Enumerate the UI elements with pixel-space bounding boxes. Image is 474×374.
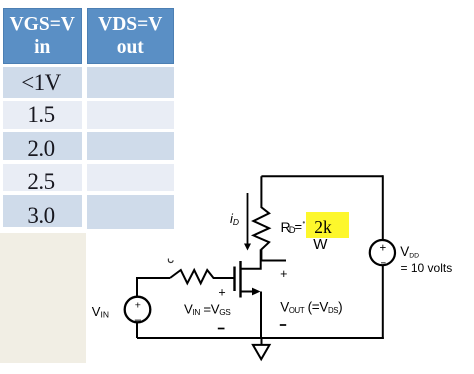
wire right upper (to VDD +)	[382, 175, 384, 240]
wire right lower (VDD - to bottom rail)	[382, 265, 384, 339]
label - inside VDD	[381, 262, 386, 264]
svg-text:VOUT (=VDS): VOUT (=VDS)	[280, 300, 342, 316]
svg-text:VIN =VGS: VIN =VGS	[184, 302, 231, 318]
table row 3	[3, 132, 82, 160]
label - VOUT	[280, 324, 286, 326]
arrowhead source	[252, 288, 261, 296]
table row 4	[3, 164, 82, 191]
wire VIN top lead	[137, 278, 170, 297]
svg-text:+: +	[135, 300, 141, 312]
svg-text:= 10 volts: = 10 volts	[401, 261, 453, 275]
svg-text:+: +	[280, 267, 287, 281]
svg-text:W: W	[313, 236, 328, 253]
svg-text:+: +	[380, 242, 387, 254]
wire bottom rail	[137, 337, 384, 339]
svg-text:2k: 2k	[314, 217, 332, 237]
svg-text:=: =	[295, 219, 303, 234]
wire ground stub	[261, 338, 263, 345]
wire source down	[260, 292, 262, 339]
table header cell VDS	[87, 8, 175, 64]
wire source lead	[241, 291, 253, 293]
stray dot	[303, 221, 305, 223]
source VIN circle	[125, 297, 151, 323]
table row 5	[3, 195, 82, 227]
source VDD circle	[370, 240, 395, 265]
slide edge beige block	[0, 233, 86, 363]
svg-text:VIN: VIN	[92, 304, 109, 320]
ground	[253, 345, 270, 359]
svg-text:+: +	[218, 286, 225, 300]
transistor Q1 channel bar	[239, 261, 241, 298]
resistor RG (input, horizontal)	[170, 270, 234, 283]
current arrow iD	[244, 193, 251, 251]
transistor Q1 gate bar	[233, 267, 235, 292]
label - inside VIN	[135, 319, 141, 321]
svg-text:VDD: VDD	[400, 244, 419, 260]
wire VOUT stub	[261, 260, 286, 262]
label - VGS	[218, 328, 225, 330]
wire drain lead	[241, 249, 261, 268]
squiggle mark	[168, 259, 173, 263]
wire top rail	[261, 175, 382, 177]
table row 1	[3, 67, 82, 98]
table row 2	[3, 101, 82, 129]
highlight yellow box	[306, 212, 349, 238]
table header cell VGS	[3, 8, 82, 64]
resistor RD (vertical)	[253, 176, 269, 260]
svg-text:iD: iD	[230, 211, 239, 227]
wire VIN bottom lead	[136, 323, 138, 339]
